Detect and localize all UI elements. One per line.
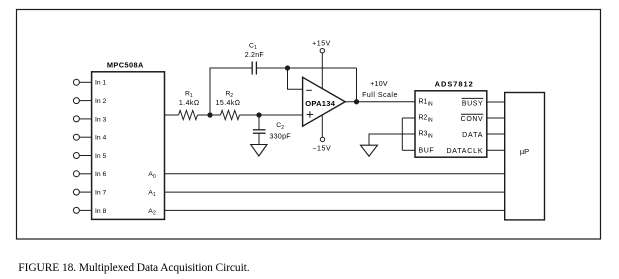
svg-text:0: 0 (153, 174, 156, 180)
wire DATACLK to microprocessor (487, 149, 506, 151)
svg-text:In 5: In 5 (95, 153, 107, 160)
svg-text:2.2nF: 2.2nF (245, 52, 264, 59)
label +10V Full Scale (362, 81, 398, 99)
pin label A1 (148, 190, 156, 199)
svg-text:BUF: BUF (419, 148, 435, 155)
svg-text:MPC508A: MPC508A (107, 60, 144, 69)
svg-text:IN: IN (428, 118, 433, 124)
resistor R1 (179, 110, 198, 119)
pin label R1IN (419, 99, 433, 108)
svg-text:+10V: +10V (370, 81, 388, 88)
svg-text:Full Scale: Full Scale (362, 92, 398, 99)
wire R2IN to BUF tie (401, 118, 403, 150)
svg-text:2: 2 (153, 211, 156, 217)
svg-text:1: 1 (153, 192, 156, 198)
wire junction down to inverting input (288, 68, 303, 89)
svg-text:ADS7812: ADS7812 (435, 79, 474, 88)
pin label R2IN (419, 115, 433, 124)
svg-text:CONV: CONV (461, 116, 484, 123)
wire op-amp output to ADS7812 R1IN (345, 101, 415, 103)
pin label BUSY with overline (462, 98, 484, 107)
op-amp U2 OPA134 (303, 77, 346, 126)
svg-text:R1: R1 (419, 99, 428, 106)
input terminal In 7 (73, 189, 106, 196)
wire CONV to microprocessor (487, 117, 506, 119)
wire R2IN stub (402, 117, 415, 119)
ground at ADC input (361, 145, 378, 156)
wire A1 to microprocessor (164, 191, 505, 193)
svg-text:In 6: In 6 (95, 171, 107, 178)
ADC U3 ADS7812 (415, 91, 487, 157)
pin label BUF (419, 148, 435, 155)
wire node B down to C2 (258, 115, 260, 130)
wire R3IN to ground (369, 134, 415, 145)
svg-text:DATACLK: DATACLK (446, 148, 483, 155)
svg-text:In 1: In 1 (95, 80, 107, 87)
svg-text:−15V: −15V (312, 146, 331, 153)
svg-text:+15V: +15V (312, 40, 331, 47)
svg-text:1.4kΩ: 1.4kΩ (179, 100, 200, 107)
label R1 1.4kOhm (179, 90, 200, 107)
svg-text:2: 2 (230, 93, 233, 99)
capacitor C2 (253, 130, 266, 133)
input terminal In 3 (73, 116, 106, 123)
capacitor C1 (252, 62, 256, 75)
wire feedback vertical from output node (356, 68, 358, 102)
node output junction (354, 100, 358, 104)
input terminal In 4 (73, 134, 106, 141)
resistor R2 (221, 110, 240, 119)
svg-text:In 4: In 4 (95, 135, 107, 142)
pin label A0 (148, 171, 156, 180)
svg-text:FIGURE 18. Multiplexed Data Ac: FIGURE 18. Multiplexed Data Acquisition … (18, 262, 249, 274)
power terminal +15V (312, 40, 331, 88)
wire A2 to microprocessor (164, 209, 505, 211)
svg-text:In 7: In 7 (95, 190, 107, 197)
svg-text:IN: IN (428, 134, 433, 140)
wire BUSY to microprocessor (487, 101, 506, 103)
ground below C2 (251, 145, 267, 157)
label OPA134 (305, 99, 336, 108)
wire DATA to microprocessor (487, 133, 506, 135)
pin label CONV with overline (461, 114, 484, 123)
label ADS7812 (435, 79, 474, 88)
wire R1 to node A (198, 114, 221, 116)
label MPC508A (107, 60, 144, 69)
svg-text:OPA134: OPA134 (305, 99, 336, 108)
svg-text:In 3: In 3 (95, 116, 107, 123)
svg-text:1: 1 (254, 45, 257, 51)
pin label R3IN (419, 131, 433, 140)
node B junction (257, 113, 261, 117)
input terminal In 6 (73, 171, 106, 178)
pin label A2 (148, 208, 156, 217)
svg-text:R3: R3 (419, 131, 428, 138)
wire A0 to microprocessor (164, 173, 505, 175)
svg-text:330pF: 330pF (270, 134, 291, 141)
pin label DATACLK (446, 148, 483, 155)
svg-text:1: 1 (190, 93, 193, 99)
wire C2 to ground (258, 133, 260, 144)
label C1 2.2nF (245, 42, 264, 59)
label R2 15.4kOhm (216, 90, 241, 107)
power terminal -15V (312, 115, 331, 153)
svg-text:In 8: In 8 (95, 208, 107, 215)
svg-text:DATA: DATA (462, 132, 483, 139)
node A junction (208, 113, 212, 117)
svg-text:2: 2 (281, 125, 284, 131)
wire BUF stub (402, 149, 415, 151)
svg-text:15.4kΩ: 15.4kΩ (216, 100, 241, 107)
svg-text:µP: µP (520, 147, 529, 156)
input terminal In 2 (73, 98, 106, 105)
wire MUX output to R1 (165, 114, 179, 116)
input terminal In 8 (73, 207, 106, 214)
multiplexer U1 MPC508A (92, 72, 165, 220)
pin label DATA (462, 132, 483, 139)
label C2 330pF (270, 122, 291, 141)
wire node A up to feedback line (210, 68, 252, 115)
input terminal In 1 (73, 79, 106, 86)
wire feedback line C1 to output branch (256, 67, 356, 69)
svg-text:IN: IN (428, 102, 433, 108)
svg-text:R2: R2 (419, 115, 428, 122)
svg-text:BUSY: BUSY (462, 100, 483, 107)
svg-text:In 2: In 2 (95, 98, 107, 105)
junction feedback to inverting input (285, 66, 289, 70)
microprocessor uP (505, 93, 545, 220)
wire R2 to op-amp + input (240, 114, 303, 116)
input terminal In 5 (73, 153, 106, 160)
